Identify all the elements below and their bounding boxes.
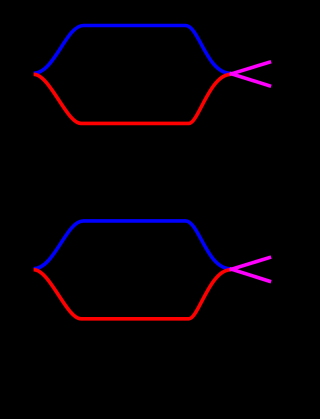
diagram 1 (top) — [34, 26, 270, 124]
lower adiabatic level curve (red), diagram 2 — [34, 270, 231, 319]
upper adiabatic level curve (blue), diagram 2 — [34, 221, 231, 269]
diagram 2 (bottom), identical, shifted down — [34, 221, 270, 319]
lower adiabatic level curve (red), diagram 1 — [34, 74, 231, 123]
diabatic branch lower (magenta), diagram 2 — [232, 269, 270, 281]
diabatic branch upper (magenta), diagram 2 — [232, 258, 270, 270]
diabatic branch upper (magenta), diagram 1 — [232, 62, 270, 74]
upper adiabatic level curve (blue), diagram 1 — [34, 26, 231, 74]
diabatic branch lower (magenta), diagram 1 — [232, 74, 270, 86]
